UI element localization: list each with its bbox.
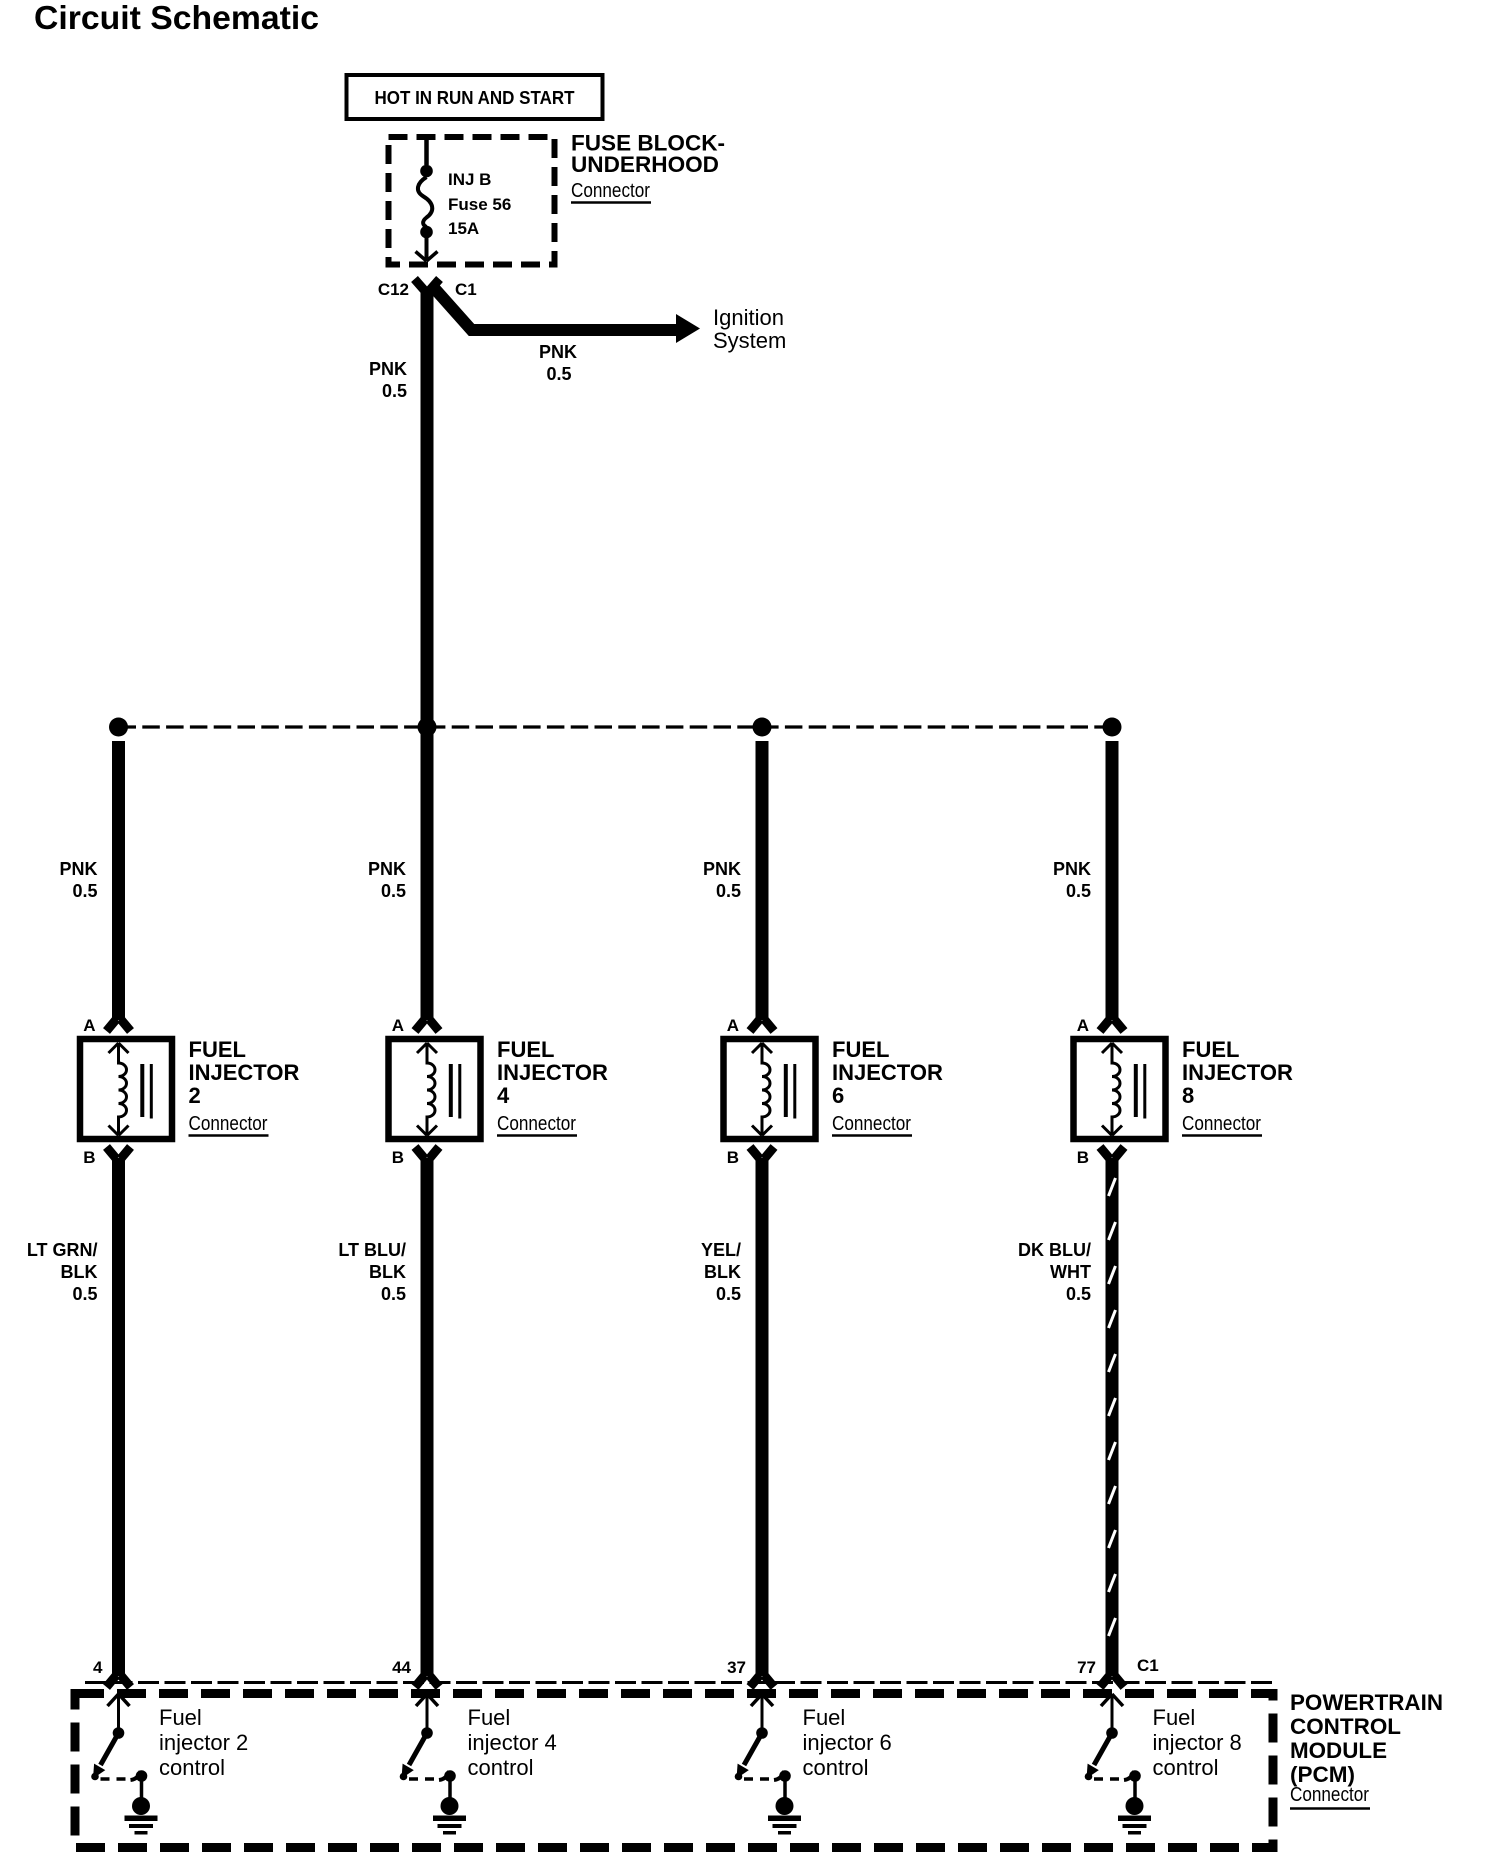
pin label B (injector 6): [727, 1148, 739, 1167]
svg-text:Circuit Schematic: Circuit Schematic: [34, 0, 319, 36]
label PNK 0.5 (injector 8): [1053, 859, 1091, 901]
svg-text:injector 2: injector 2: [159, 1730, 248, 1755]
label PNK 0.5 (injector 6): [703, 859, 741, 901]
PCM entry chevron pin 77: [1100, 1675, 1124, 1687]
svg-text:MODULE: MODULE: [1290, 1738, 1387, 1763]
svg-text:WHT: WHT: [1050, 1262, 1091, 1282]
injector 8 coil symbol: [1102, 1043, 1145, 1136]
fuse block underhood dashed box: [389, 137, 555, 265]
svg-text:PNK: PNK: [703, 859, 741, 879]
label wire color (injector 6): [701, 1240, 741, 1304]
label FUEL INJECTOR 2: [189, 1037, 300, 1136]
pin B chevron (injector 2): [107, 1147, 131, 1159]
HOT IN RUN AND START box: [347, 75, 603, 119]
splice junction node (injector 6): [753, 718, 772, 737]
svg-text:37: 37: [727, 1658, 746, 1677]
svg-text:LT GRN/: LT GRN/: [27, 1240, 98, 1260]
svg-text:Connector: Connector: [1182, 1113, 1261, 1135]
svg-text:A: A: [1077, 1016, 1089, 1035]
pin label B (injector 2): [83, 1148, 95, 1167]
svg-text:INJECTOR: INJECTOR: [189, 1060, 300, 1085]
svg-text:0.5: 0.5: [72, 881, 97, 901]
label FUEL INJECTOR 8: [1182, 1037, 1293, 1136]
pin label B (injector 8): [1077, 1148, 1089, 1167]
svg-text:Fuse 56: Fuse 56: [448, 195, 511, 214]
pin A chevron (injector 6): [750, 1019, 774, 1031]
svg-text:FUEL: FUEL: [497, 1037, 554, 1062]
svg-text:PNK: PNK: [539, 342, 577, 362]
svg-text:4: 4: [93, 1658, 103, 1677]
svg-text:0.5: 0.5: [716, 1284, 741, 1304]
svg-text:DK BLU/: DK BLU/: [1018, 1240, 1091, 1260]
PCM connector dashed line C1: [85, 1681, 1272, 1684]
ground symbol (injector 4 driver): [433, 1776, 466, 1835]
PCM driver switch (injector 6): [735, 1694, 791, 1782]
wire PNK to injector 2: [112, 741, 125, 1020]
svg-text:Connector: Connector: [571, 180, 650, 202]
svg-text:0.5: 0.5: [381, 1284, 406, 1304]
label FUSE BLOCK-UNDERHOOD: [571, 131, 725, 203]
svg-text:B: B: [392, 1148, 404, 1167]
PCM driver switch (injector 8): [1085, 1694, 1141, 1782]
label PNK 0.5 (injector 4): [368, 859, 406, 901]
svg-text:System: System: [713, 328, 786, 353]
fuse F56 INJ B 15A: [416, 137, 438, 261]
svg-text:INJ B: INJ B: [448, 170, 491, 189]
svg-text:Connector: Connector: [189, 1113, 268, 1135]
fuel injector 6 connector box: [724, 1039, 816, 1139]
svg-text:control: control: [1153, 1755, 1219, 1780]
ground symbol (injector 2 driver): [125, 1776, 158, 1835]
wire PNK main vertical (injector 4 feed): [421, 288, 434, 1020]
pin number 37: [727, 1658, 746, 1677]
svg-text:A: A: [392, 1016, 404, 1035]
svg-text:control: control: [803, 1755, 869, 1780]
svg-text:PNK: PNK: [1053, 859, 1091, 879]
PCM entry chevron pin 4: [107, 1675, 131, 1687]
label wire color (injector 2): [27, 1240, 98, 1304]
svg-text:Fuel: Fuel: [1153, 1705, 1196, 1730]
svg-text:C1: C1: [1137, 1656, 1159, 1675]
pin number 4: [93, 1658, 103, 1677]
svg-text:injector 4: injector 4: [468, 1730, 557, 1755]
svg-text:0.5: 0.5: [382, 381, 407, 401]
pin number 77: [1077, 1658, 1096, 1677]
svg-text:0.5: 0.5: [1066, 881, 1091, 901]
title Circuit Schematic: [34, 0, 319, 36]
wire injector 4 control to PCM: [421, 1158, 434, 1676]
svg-text:6: 6: [832, 1083, 844, 1108]
svg-text:control: control: [159, 1755, 225, 1780]
splice bus dashed wire: [119, 725, 1113, 728]
svg-text:C1: C1: [455, 280, 477, 299]
pin label A (injector 8): [1077, 1016, 1089, 1035]
pin label B (injector 4): [392, 1148, 404, 1167]
svg-text:injector 8: injector 8: [1153, 1730, 1242, 1755]
wire injector 8 control to PCM: [1109, 1158, 1116, 1676]
pin label A (injector 6): [727, 1016, 739, 1035]
svg-text:8: 8: [1182, 1083, 1194, 1108]
label Fuel injector 2 control: [159, 1705, 248, 1780]
pin A chevron (injector 2): [107, 1019, 131, 1031]
pin B chevron (injector 6): [750, 1147, 774, 1159]
label wire color (injector 4): [338, 1240, 406, 1304]
label wire color (injector 8): [1018, 1240, 1091, 1304]
pin label A (injector 4): [392, 1016, 404, 1035]
splice junction node (injector 4): [418, 718, 437, 737]
wire injector 2 control to PCM: [112, 1158, 125, 1676]
svg-text:B: B: [1077, 1148, 1089, 1167]
connector C12/C1 labels: [378, 280, 477, 299]
pin number 44: [392, 1658, 411, 1677]
ground symbol (injector 6 driver): [768, 1776, 801, 1835]
svg-text:0.5: 0.5: [72, 1284, 97, 1304]
pin B chevron (injector 4): [415, 1147, 439, 1159]
splice junction node (injector 8): [1103, 718, 1122, 737]
pin label C1 (PCM): [1137, 1656, 1159, 1675]
svg-text:INJECTOR: INJECTOR: [832, 1060, 943, 1085]
svg-text:2: 2: [189, 1083, 201, 1108]
label PNK 0.5 (main feed): [369, 359, 407, 401]
svg-text:77: 77: [1077, 1658, 1096, 1677]
svg-text:0.5: 0.5: [716, 881, 741, 901]
svg-text:0.5: 0.5: [381, 881, 406, 901]
svg-text:FUEL: FUEL: [189, 1037, 246, 1062]
fuel injector 2 connector box: [80, 1039, 172, 1139]
svg-text:POWERTRAIN: POWERTRAIN: [1290, 1690, 1443, 1715]
svg-text:CONTROL: CONTROL: [1290, 1714, 1401, 1739]
svg-text:BLK: BLK: [369, 1262, 406, 1282]
svg-text:B: B: [727, 1148, 739, 1167]
svg-text:BLK: BLK: [61, 1262, 98, 1282]
wire PNK to injector 6: [756, 741, 769, 1020]
connector chevron under fuse: [415, 279, 440, 291]
svg-text:PNK: PNK: [59, 859, 97, 879]
injector 4 coil symbol: [417, 1043, 460, 1136]
PCM entry chevron pin 44: [415, 1675, 439, 1687]
svg-text:YEL/: YEL/: [701, 1240, 741, 1260]
splice junction node (injector 2): [109, 718, 128, 737]
pin label A (injector 2): [83, 1016, 95, 1035]
label FUEL INJECTOR 6: [832, 1037, 943, 1136]
label POWERTRAIN CONTROL MODULE (PCM): [1290, 1690, 1443, 1809]
ground symbol (injector 8 driver): [1118, 1776, 1151, 1835]
svg-text:Fuel: Fuel: [159, 1705, 202, 1730]
svg-text:Fuel: Fuel: [468, 1705, 511, 1730]
svg-text:Connector: Connector: [497, 1113, 576, 1135]
PCM dashed box: [75, 1694, 1273, 1848]
fuel injector 8 connector box: [1074, 1039, 1166, 1139]
fuel injector 4 connector box: [389, 1039, 481, 1139]
svg-text:FUEL: FUEL: [832, 1037, 889, 1062]
svg-text:control: control: [468, 1755, 534, 1780]
wire PNK to injector 8: [1106, 741, 1119, 1020]
svg-text:0.5: 0.5: [1066, 1284, 1091, 1304]
svg-text:Connector: Connector: [832, 1113, 911, 1135]
svg-text:A: A: [727, 1016, 739, 1035]
PCM entry chevron pin 37: [750, 1675, 774, 1687]
wire branch to ignition system: [435, 289, 700, 343]
svg-text:Fuel: Fuel: [803, 1705, 846, 1730]
label Fuel injector 4 control: [468, 1705, 557, 1780]
pin A chevron (injector 8): [1100, 1019, 1124, 1031]
svg-text:A: A: [83, 1016, 95, 1035]
injector 6 coil symbol: [752, 1043, 795, 1136]
svg-text:BLK: BLK: [704, 1262, 741, 1282]
fuse value labels: [448, 170, 511, 238]
PCM driver switch (injector 4): [400, 1694, 456, 1782]
label Ignition System: [713, 305, 786, 353]
label Fuel injector 6 control: [803, 1705, 892, 1780]
svg-text:15A: 15A: [448, 219, 479, 238]
PCM driver switch (injector 2): [91, 1694, 147, 1782]
svg-text:C12: C12: [378, 280, 409, 299]
svg-text:B: B: [83, 1148, 95, 1167]
svg-text:44: 44: [392, 1658, 411, 1677]
label PNK 0.5 (branch): [539, 342, 577, 384]
wire injector 6 control to PCM: [756, 1158, 769, 1676]
svg-text:Ignition: Ignition: [713, 305, 784, 330]
pin A chevron (injector 4): [415, 1019, 439, 1031]
svg-text:4: 4: [497, 1083, 510, 1108]
svg-text:PNK: PNK: [368, 859, 406, 879]
label Fuel injector 8 control: [1153, 1705, 1242, 1780]
svg-text:0.5: 0.5: [546, 364, 571, 384]
label PNK 0.5 (injector 2): [59, 859, 97, 901]
svg-text:Connector: Connector: [1290, 1784, 1369, 1806]
svg-text:INJECTOR: INJECTOR: [497, 1060, 608, 1085]
label FUEL INJECTOR 4: [497, 1037, 608, 1136]
injector 2 coil symbol: [109, 1043, 152, 1136]
svg-text:FUEL: FUEL: [1182, 1037, 1239, 1062]
svg-text:PNK: PNK: [369, 359, 407, 379]
svg-text:INJECTOR: INJECTOR: [1182, 1060, 1293, 1085]
svg-text:LT BLU/: LT BLU/: [338, 1240, 406, 1260]
svg-text:HOT IN RUN AND START: HOT IN RUN AND START: [375, 88, 575, 108]
svg-text:injector 6: injector 6: [803, 1730, 892, 1755]
svg-text:UNDERHOOD: UNDERHOOD: [571, 152, 719, 177]
pin B chevron (injector 8): [1100, 1147, 1124, 1159]
